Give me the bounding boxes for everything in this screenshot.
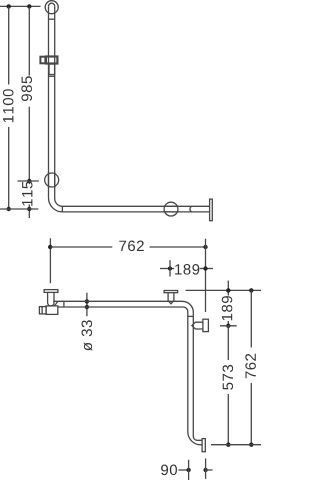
dimension 762 right: upper segment <box>250 290 252 347</box>
joint line below plan bend <box>188 315 194 317</box>
dimension 189 right: value label <box>222 296 233 320</box>
dimension 90: line right segment <box>206 469 213 471</box>
dimension 189 top: line right segment <box>200 268 213 270</box>
dimension 189 right: top tick dot <box>226 288 230 292</box>
dimension 762 right: value label <box>245 354 256 379</box>
plan rail outer contour: bottom edge, bend, left edge, lower bend <box>58 307 202 445</box>
plan slider knob divider <box>41 307 43 314</box>
dimension 573: upper segment <box>227 326 229 360</box>
left wall bracket cap (plan view) <box>44 290 58 293</box>
dimension 762: right tick dot <box>203 245 207 249</box>
dimension 115: dimension line with overshoot <box>28 181 30 184</box>
extension line: wall plane at lower flange (plan view) <box>211 444 262 446</box>
wall flange at rail end (side view) <box>210 199 213 221</box>
extension line: rail centreline reference <box>0 208 38 210</box>
dimension 762: left tick dot <box>48 245 52 249</box>
right wall bracket cap (plan view) <box>164 291 178 293</box>
dimension 90: left extension tick <box>188 460 190 480</box>
dimension 90: line left segment <box>179 469 189 471</box>
rail outer contour: left edge, bend, bottom edge (side view) <box>49 6 210 212</box>
plan rail inner contour: top edge, bend, right edge, lower bend <box>53 301 202 440</box>
shower-head slider knob (side view) <box>40 57 45 64</box>
lower wall flange at rail bottom end (plan view) <box>202 439 205 452</box>
plan slider knob <box>39 307 46 314</box>
wall rose on horizontal tube (side view) <box>164 202 178 216</box>
tube joint line below sleeve <box>49 75 55 77</box>
dimension 762 right: bottom tick dot <box>249 443 253 447</box>
dimension 90: right tick dot <box>203 468 207 472</box>
dimension 762: left extension line (plan view) <box>49 238 51 283</box>
dimension 1100: value label <box>3 89 14 122</box>
dimension 985: top tick dot <box>27 4 31 8</box>
vertical tube edges redrawn over rose (side view) <box>48 172 50 188</box>
dimension 115: bottom tick dot <box>27 207 31 211</box>
right wall bracket stem with pointed tip (plan view) <box>168 293 174 304</box>
shower-head holder sleeve (side view) <box>49 64 55 75</box>
dimension 1100: bottom tick dot <box>7 207 11 211</box>
extension line: top mounting reference <box>0 5 41 7</box>
diameter 33: tick dot on tube top edge <box>85 299 89 303</box>
extension tick at vertical-tube bracket centre <box>220 325 237 327</box>
plan slider body at rail left end <box>46 306 58 315</box>
dimension 573: bottom tick dot <box>226 443 230 447</box>
dimension 189 top: extension tick at bracket centre <box>169 260 171 276</box>
dimension 189 top: line left overshoot <box>160 268 174 270</box>
dimension 762 right: lower segment <box>250 383 252 445</box>
extension line: horizontal tube centre to right margin (plan view) <box>186 289 262 291</box>
wall rose on vertical tube (side view) <box>45 173 59 187</box>
dimension 762: line left segment <box>50 246 112 248</box>
tube joint capsule arc near wall flange (side view) <box>190 206 192 212</box>
diameter 33: tick dot on tube bottom edge <box>85 305 89 309</box>
dimension 90: right extension tick <box>205 458 207 479</box>
dimension 985: dimension line upper segment <box>28 6 30 75</box>
dimension 985: value label <box>21 76 32 101</box>
dimension 1100: dimension line upper segment <box>8 6 10 84</box>
shower-head slider body (side view) <box>46 57 58 64</box>
bracket on vertical tube: stem with pointed tip <box>192 322 203 329</box>
dimension 189 top: value label <box>175 264 199 275</box>
dimension 573: lower segment <box>227 394 229 445</box>
chamfer at plan rail left end <box>54 301 58 306</box>
dimension 762: value label <box>119 241 144 252</box>
dimension 762 right: top tick dot <box>249 288 253 292</box>
vertical tube rounded top cap (side view) <box>49 3 55 6</box>
dimension 90: left tick dot <box>186 468 190 472</box>
dimension 985: dimension line lower segment <box>28 107 30 181</box>
horizontal tube edges redrawn over rose (side view) <box>163 205 179 207</box>
rail top wall rose (side view) <box>45 1 58 14</box>
dimension 189 right: top overshoot <box>227 281 229 296</box>
extension tick at wall rose centre <box>18 180 39 182</box>
plan tube joint line at left end <box>63 301 65 307</box>
dimension 189 right: bottom tick dot <box>226 324 230 328</box>
bracket on vertical tube: wall flange (plan view) <box>203 319 209 331</box>
tube joint line below top rose <box>49 18 55 20</box>
dimension 189 top: right tick dot <box>203 266 207 270</box>
dimension 189 right: lower segment <box>227 321 229 326</box>
bend joint line (side view) <box>61 206 63 212</box>
dimension 573: value label <box>223 365 234 390</box>
dimension 1100: top tick dot <box>7 4 11 8</box>
diameter 33 leader line <box>86 293 88 317</box>
left wall bracket stem with rounded tip (plan view) <box>48 292 54 306</box>
diameter 33: value label <box>82 320 93 351</box>
dimension 189 top: left tick dot <box>168 266 172 270</box>
dimension 90: value label <box>161 465 177 476</box>
extension line: wall plane at right (plan view) <box>205 239 207 312</box>
dimension 1100: dimension line lower segment <box>8 127 10 209</box>
dimension 115: value label <box>22 181 32 205</box>
rail inner contour: right edge, bend, top edge (side view) <box>55 6 210 206</box>
dimension 985: tick dot at wall rose centre <box>27 179 31 183</box>
dimension 762: line right segment <box>150 246 206 248</box>
